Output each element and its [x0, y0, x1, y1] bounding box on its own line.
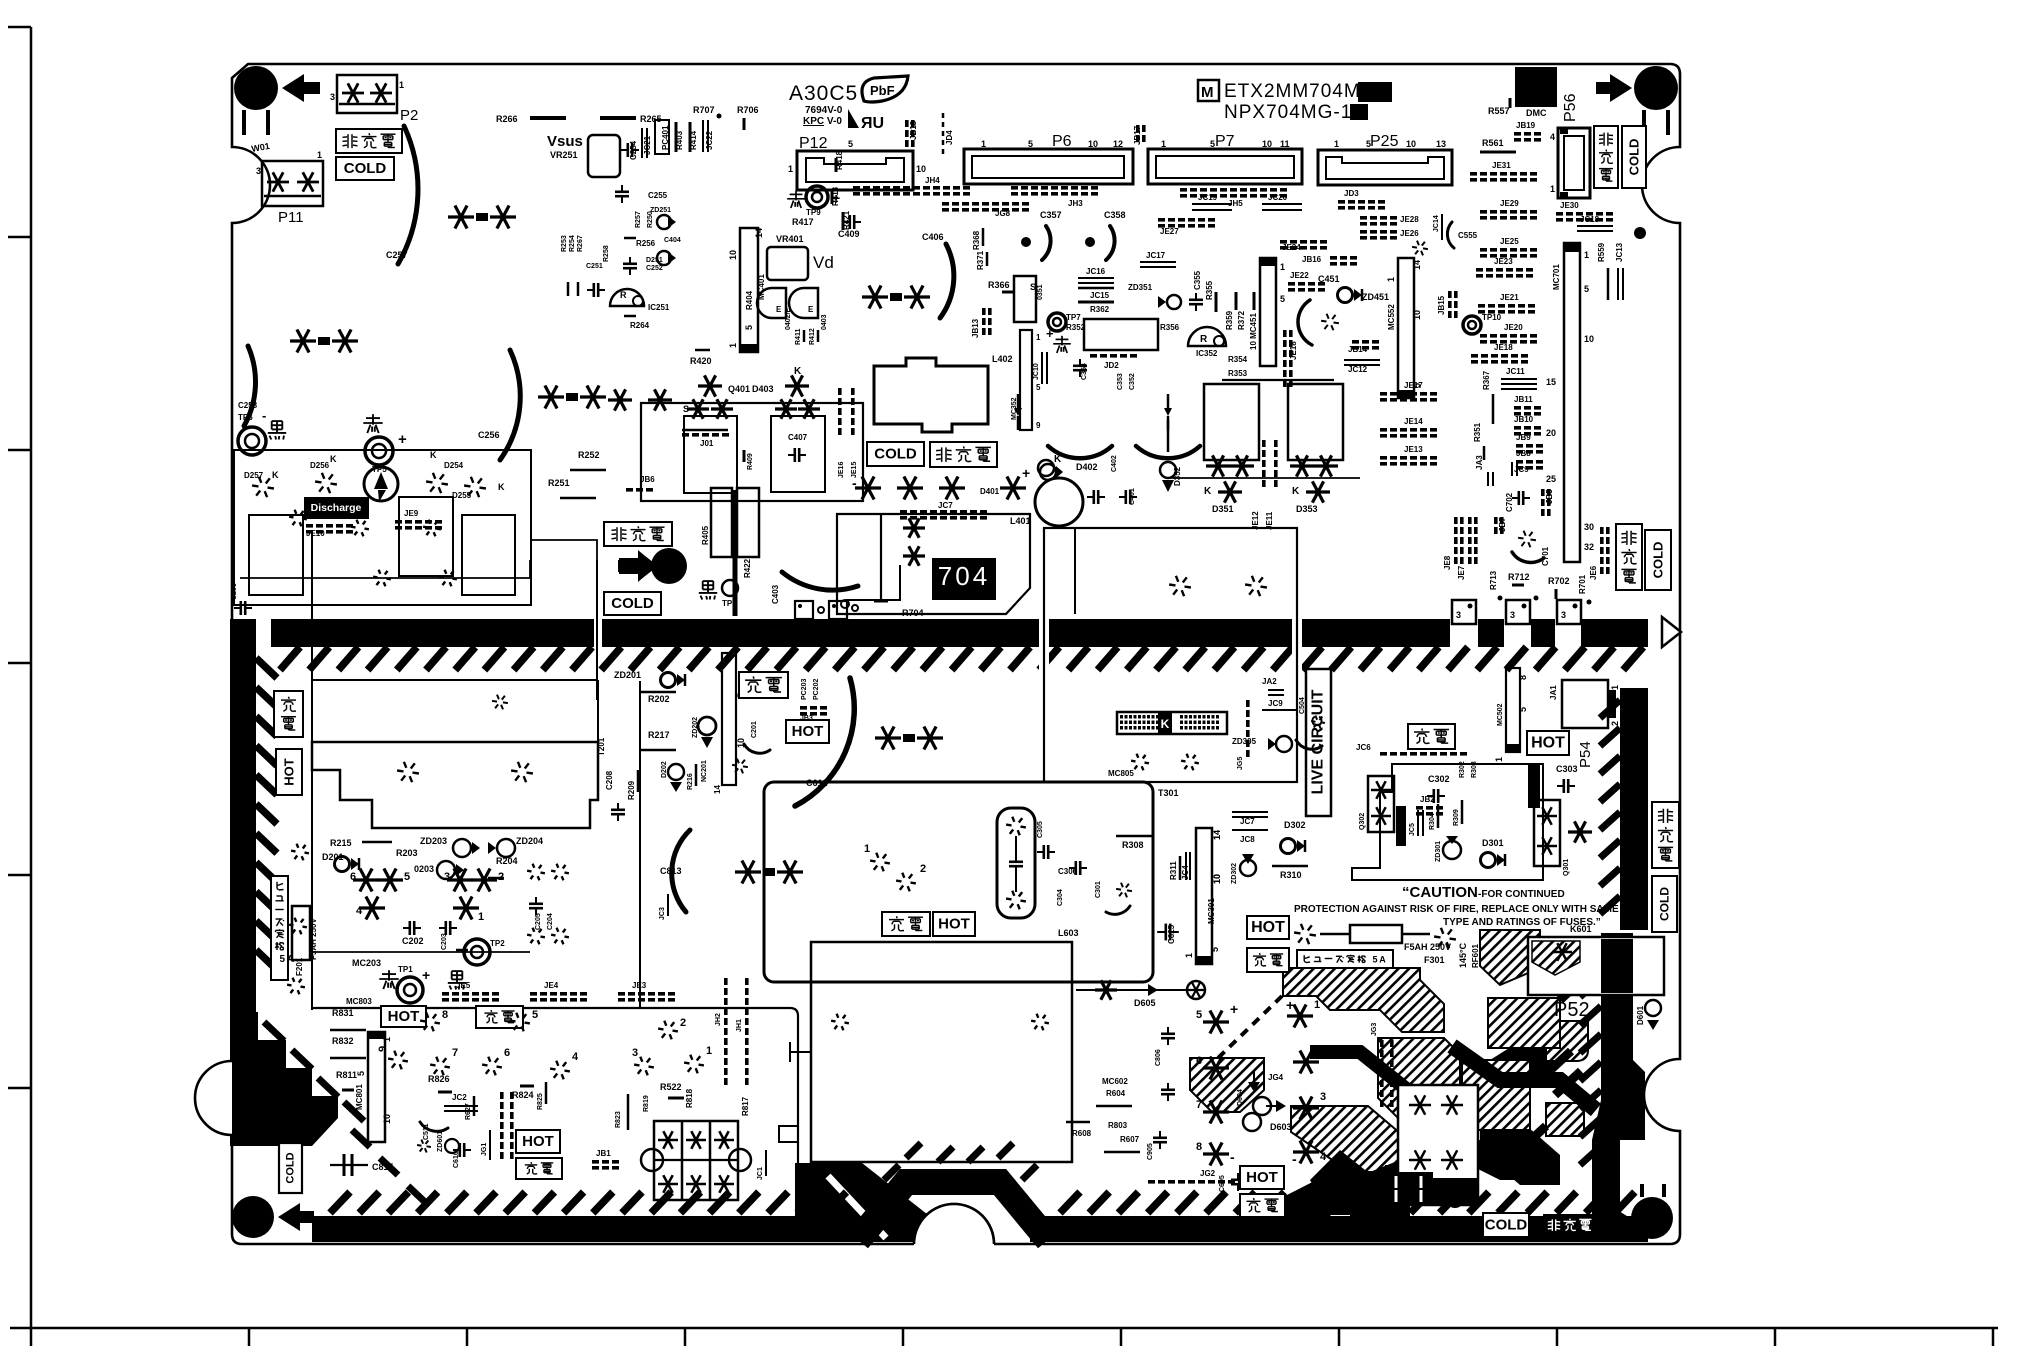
svg-text:C254: C254 — [629, 140, 638, 160]
dashed diagonal trace — [1218, 996, 1282, 1058]
svg-text:6: 6 — [1196, 1055, 1202, 1067]
label 充電 T301 — [882, 912, 930, 936]
svg-text:5: 5 — [1366, 139, 1371, 149]
capacitor C206 — [240, 601, 243, 615]
thick diagonal stubs near column — [1550, 956, 1576, 980]
svg-text:R418: R418 — [835, 150, 844, 170]
svg-text:MC502: MC502 — [1497, 703, 1504, 726]
svg-text:JB19: JB19 — [1516, 121, 1536, 130]
svg-text:1: 1 — [706, 1045, 712, 1057]
jumper JH2 JH1 — [724, 978, 728, 985]
diode row D605 — [1076, 989, 1190, 991]
svg-text:R817: R817 — [741, 1096, 750, 1116]
svg-text:1: 1 — [1184, 953, 1194, 958]
svg-text:JC12: JC12 — [1348, 365, 1368, 374]
big star pair hot2 — [735, 870, 761, 873]
svg-text:704: 704 — [938, 561, 990, 591]
svg-text:2: 2 — [1610, 721, 1620, 726]
svg-text:R831: R831 — [332, 1008, 354, 1018]
svg-text:1: 1 — [1036, 333, 1041, 342]
svg-text:A30C5: A30C5 — [789, 82, 858, 105]
label HOT mid-right — [1247, 916, 1289, 939]
Matsushita M logo — [1198, 80, 1219, 101]
svg-text:D352: D352 — [1173, 466, 1182, 486]
svg-text:R: R — [620, 290, 627, 300]
svg-text:25: 25 — [1546, 474, 1556, 484]
jumper JC22 — [702, 120, 704, 152]
svg-text:VR251: VR251 — [550, 150, 578, 160]
label 非充電 mid — [930, 442, 997, 467]
svg-text:2: 2 — [1320, 1045, 1326, 1057]
arrow top-right — [1596, 74, 1632, 102]
svg-text:C358: C358 — [1104, 210, 1126, 220]
wires from discharge block — [311, 530, 313, 1010]
svg-text:JD4: JD4 — [945, 130, 954, 145]
inductor L401 — [1035, 478, 1083, 526]
svg-text:HOT: HOT — [1251, 919, 1285, 936]
svg-text:0403: 0403 — [821, 314, 828, 330]
inductor L402 — [874, 358, 988, 432]
svg-text:5: 5 — [356, 1071, 366, 1076]
relay K601 outline — [1528, 937, 1664, 995]
hatched copper region E (lower band) — [1291, 1106, 1420, 1172]
svg-text:C257: C257 — [386, 250, 408, 260]
svg-text:C204: C204 — [547, 913, 554, 930]
svg-text:R351: R351 — [1473, 422, 1482, 442]
svg-text:ZD305: ZD305 — [1232, 737, 1257, 746]
svg-text:0203: 0203 — [414, 864, 434, 874]
svg-text:P52: P52 — [1554, 999, 1590, 1021]
arc C358 — [1106, 226, 1115, 260]
svg-text:R254: R254 — [569, 235, 576, 252]
capacitor C451 arc — [1298, 300, 1312, 345]
svg-text:JC16: JC16 — [1086, 267, 1106, 276]
svg-text:R: R — [1200, 334, 1208, 345]
relay K602 outline — [1398, 1085, 1478, 1205]
svg-text:K: K — [794, 366, 802, 377]
svg-text:R818: R818 — [685, 1088, 694, 1108]
label red 赤 mid — [1056, 338, 1069, 340]
svg-text:E: E — [808, 305, 814, 314]
svg-text:TP1: TP1 — [398, 965, 413, 974]
left isolation bar — [230, 619, 256, 1019]
capacitor C354 — [1073, 364, 1087, 367]
svg-text:ZD351: ZD351 — [1128, 283, 1153, 292]
svg-text:-FOR CONTINUED: -FOR CONTINUED — [1478, 889, 1565, 900]
left bar stair to bottom — [230, 1012, 338, 1146]
svg-text:R412: R412 — [809, 328, 816, 345]
svg-text:DMC: DMC — [1526, 108, 1547, 118]
svg-text:JG8: JG8 — [995, 209, 1011, 218]
resistor R405 — [711, 488, 732, 557]
svg-text:7: 7 — [1196, 1099, 1202, 1111]
svg-text:PbF: PbF — [870, 83, 895, 98]
svg-text:F5AH 250V: F5AH 250V — [309, 918, 318, 960]
svg-text:COLD: COLD — [1658, 887, 1672, 921]
svg-text:A: A — [287, 954, 294, 965]
svg-text:14: 14 — [1412, 260, 1422, 270]
svg-text:R712: R712 — [1508, 572, 1530, 582]
bottom band teeth — [330, 1192, 350, 1213]
svg-text:30: 30 — [1584, 522, 1594, 532]
svg-text:3: 3 — [1561, 610, 1566, 620]
label 充電 bottom mid — [1240, 1194, 1285, 1217]
svg-text:2: 2 — [920, 863, 926, 875]
svg-text:JC11: JC11 — [1506, 367, 1525, 376]
svg-text:R420: R420 — [690, 356, 712, 366]
svg-text:TYPE AND RATINGS OF FUSES.”: TYPE AND RATINGS OF FUSES.” — [1443, 917, 1601, 928]
svg-text:R824: R824 — [512, 1090, 534, 1100]
svg-text:10: 10 — [728, 250, 738, 260]
star pair 4 — [862, 295, 888, 298]
wire vertical mid hot — [639, 681, 641, 1008]
svg-text:TP6: TP6 — [238, 413, 253, 422]
svg-text:C208: C208 — [605, 770, 614, 790]
svg-text:JC20: JC20 — [1268, 193, 1288, 202]
svg-text:JE15: JE15 — [851, 462, 858, 478]
module 704 — [932, 558, 996, 600]
svg-text:R204: R204 — [496, 856, 518, 866]
svg-text:J01: J01 — [700, 439, 714, 448]
svg-text:JB8: JB8 — [1516, 449, 1531, 458]
svg-text:A: A — [1379, 955, 1386, 965]
svg-text:PC202: PC202 — [813, 678, 820, 700]
svg-text:MC203: MC203 — [352, 958, 381, 968]
svg-text:R308: R308 — [1122, 840, 1144, 850]
svg-text:C352: C352 — [1129, 373, 1136, 390]
svg-text:JH1: JH1 — [736, 1019, 743, 1032]
label HOT P54 — [1527, 731, 1569, 755]
svg-text:JB3: JB3 — [800, 715, 813, 722]
svg-text:JH4: JH4 — [925, 176, 940, 185]
svg-text:IC251: IC251 — [648, 303, 670, 312]
svg-text:R417: R417 — [792, 217, 814, 227]
svg-text:PC401: PC401 — [661, 125, 670, 150]
svg-text:14: 14 — [713, 785, 722, 794]
svg-text:C255: C255 — [648, 191, 668, 200]
svg-text:K: K — [272, 470, 279, 480]
svg-text:VR401: VR401 — [776, 234, 804, 244]
optocoupler PC201 — [795, 601, 813, 619]
svg-text:JC18: JC18 — [1580, 215, 1600, 224]
right column hatch top — [1620, 688, 1648, 930]
svg-text:R706: R706 — [737, 105, 759, 115]
svg-text:1: 1 — [382, 1037, 392, 1042]
svg-text:T301: T301 — [1158, 788, 1179, 798]
svg-text:3: 3 — [256, 166, 261, 176]
resistor R414 — [689, 122, 692, 152]
capacitor C254 — [626, 143, 629, 157]
label HOT T301 — [933, 912, 975, 936]
diode D251 — [657, 251, 671, 265]
svg-text:JE18: JE18 — [1289, 341, 1298, 360]
svg-text:Q302: Q302 — [1359, 813, 1366, 830]
testpoint TP1 — [397, 977, 423, 1003]
label 充電 mid-right — [1247, 948, 1289, 972]
edge marker triangle — [1662, 617, 1681, 647]
svg-text:JC3: JC3 — [659, 907, 666, 920]
arrow top-left — [282, 74, 320, 102]
svg-text:2: 2 — [680, 1017, 686, 1029]
svg-text:R411: R411 — [795, 329, 802, 345]
svg-text:R561: R561 — [1482, 138, 1504, 148]
jumper JH4 dashes — [853, 186, 860, 190]
arc C812 — [795, 678, 854, 806]
svg-text:R256: R256 — [636, 239, 656, 248]
svg-text:R819: R819 — [643, 1095, 650, 1112]
diode block D351 — [1204, 384, 1259, 460]
svg-text:R217: R217 — [648, 730, 670, 740]
svg-text:R356: R356 — [1160, 323, 1180, 332]
svg-text:14: 14 — [754, 228, 764, 238]
jumper dash pair vertical — [500, 1092, 504, 1099]
hatched copper region A (fuse strip) — [1283, 968, 1444, 1032]
svg-text:R309: R309 — [1453, 809, 1460, 826]
svg-text:32: 32 — [1584, 542, 1594, 552]
svg-text:R367: R367 — [1482, 370, 1491, 390]
block MC803 outline — [312, 1008, 798, 1205]
svg-text:R257: R257 — [635, 211, 642, 228]
label HOT box small — [516, 1130, 560, 1153]
fuse F201 — [292, 906, 310, 960]
svg-text:D603: D603 — [1270, 1122, 1292, 1132]
connector P11 — [262, 161, 323, 206]
svg-text:TP10: TP10 — [1482, 313, 1502, 322]
svg-text:D601: D601 — [1636, 1005, 1645, 1025]
svg-text:R557: R557 — [1488, 106, 1510, 116]
svg-text:9: 9 — [377, 1046, 389, 1052]
svg-text:R832: R832 — [332, 1036, 354, 1046]
svg-text:JG4: JG4 — [1268, 1073, 1284, 1082]
arc D402 — [1048, 446, 1112, 458]
varistor VR401 — [767, 247, 808, 280]
capacitors C401 — [1093, 490, 1096, 504]
arrow mid-left — [618, 552, 658, 580]
connector P2 — [337, 75, 397, 113]
diode D352 — [1160, 462, 1176, 478]
svg-text:JA2: JA2 — [1262, 677, 1277, 686]
svg-text:R311: R311 — [1169, 861, 1178, 880]
svg-text:K: K — [430, 450, 437, 460]
svg-text:JE21: JE21 — [1500, 293, 1519, 302]
label COLD right vertical — [1645, 530, 1671, 590]
jumper JE18 vertical — [1283, 330, 1287, 337]
svg-text:C605: C605 — [1219, 1175, 1226, 1192]
testpoint TP8 dot — [651, 548, 687, 584]
svg-text:NC201: NC201 — [701, 760, 708, 782]
label 非充電 right-lower vertical — [1652, 802, 1679, 868]
svg-text:C355: C355 — [1193, 270, 1202, 290]
resistor R403 — [675, 122, 678, 152]
svg-text:JB16: JB16 — [1302, 255, 1322, 264]
svg-text:R203: R203 — [396, 848, 418, 858]
svg-text:D301: D301 — [1482, 838, 1504, 848]
svg-text:C206: C206 — [231, 583, 238, 600]
svg-text:HOT: HOT — [282, 758, 297, 786]
svg-text:K602: K602 — [1432, 1218, 1456, 1229]
svg-text:13: 13 — [1436, 139, 1446, 149]
wire through band slot — [596, 560, 598, 700]
thick snake trace 1 — [1452, 1046, 1596, 1110]
svg-text:ZD251: ZD251 — [650, 207, 671, 214]
isolation band (HOT/COLD boundary) — [271, 619, 594, 647]
jumper JD2 dashes — [1090, 354, 1097, 358]
svg-text:9: 9 — [1036, 421, 1041, 430]
rect around 704 — [837, 514, 1030, 614]
capacitor C355 — [1189, 298, 1203, 301]
label red 赤 TP9 — [790, 193, 803, 195]
jumper JE9 — [395, 520, 402, 524]
svg-text:R405: R405 — [701, 525, 710, 545]
svg-text:P11: P11 — [278, 209, 304, 226]
svg-text:1: 1 — [1584, 250, 1589, 260]
svg-text:KPC V-0: KPC V-0 — [803, 116, 842, 127]
hatched copper region B (K601 area) — [1480, 930, 1540, 985]
label COLD top-left — [336, 157, 394, 180]
svg-text:COLD: COLD — [1627, 139, 1642, 176]
svg-text:IC352: IC352 — [1196, 349, 1218, 358]
svg-text:D302: D302 — [1284, 820, 1306, 830]
svg-text:10: 10 — [1406, 139, 1416, 149]
drawing frame ruler left — [30, 27, 33, 1329]
jumper JB18 — [905, 120, 909, 127]
svg-text:JC14: JC14 — [1433, 215, 1440, 232]
svg-text:C402: C402 — [1111, 455, 1118, 472]
transformer T201 block — [312, 742, 598, 828]
svg-text:JC10: JC10 — [1033, 363, 1040, 380]
svg-text:R359: R359 — [1225, 310, 1234, 330]
svg-text:R352: R352 — [1066, 323, 1086, 332]
svg-text:R267: R267 — [577, 235, 584, 252]
svg-text:NPX704MG-1: NPX704MG-1 — [1224, 102, 1352, 123]
star sparse group — [541, 871, 545, 874]
arc C257 — [398, 126, 418, 264]
svg-text:Q401: Q401 — [728, 384, 750, 394]
black claw traces right — [1480, 1120, 1560, 1185]
svg-text:+: + — [1046, 326, 1054, 341]
svg-text:JC7: JC7 — [1240, 817, 1255, 826]
svg-text:R366: R366 — [988, 280, 1010, 290]
svg-text:1: 1 — [1334, 139, 1339, 149]
svg-text:R707: R707 — [693, 105, 715, 115]
svg-text:M: M — [1201, 84, 1214, 101]
label COLD P56 vertical — [1622, 126, 1646, 188]
svg-text:R608: R608 — [1072, 1129, 1092, 1138]
connector MC552 — [1398, 258, 1414, 398]
svg-text:ZD203: ZD203 — [420, 836, 447, 846]
svg-text:JC15: JC15 — [1090, 291, 1110, 300]
svg-text:COLD: COLD — [1485, 1217, 1528, 1234]
star pad — [1531, 539, 1536, 542]
svg-text:C304: C304 — [1057, 889, 1064, 906]
svg-text:C404: C404 — [664, 237, 681, 244]
jumper JE8 — [1454, 517, 1458, 524]
svg-text:D353: D353 — [1296, 504, 1318, 514]
svg-text:JB5: JB5 — [1545, 489, 1554, 504]
bridge block outline — [234, 450, 531, 605]
svg-text:JD2: JD2 — [1104, 361, 1119, 370]
svg-text:5: 5 — [1280, 294, 1285, 304]
svg-text:5: 5 — [1196, 1009, 1202, 1021]
svg-text:5: 5 — [744, 325, 754, 330]
svg-text:JE31: JE31 — [1492, 161, 1511, 170]
testpoint TP9 — [806, 186, 828, 208]
svg-text:1: 1 — [1550, 184, 1555, 194]
board outline — [232, 64, 1680, 1244]
svg-text:MC602: MC602 — [1102, 1077, 1128, 1086]
label 充電 live — [1408, 724, 1455, 749]
svg-text:1: 1 — [1280, 262, 1285, 272]
thick snake trace 2 — [1310, 1052, 1470, 1100]
svg-text:5: 5 — [1210, 947, 1220, 952]
connector MC203 wire — [310, 951, 530, 953]
hatched copper region F (P52) — [1546, 1021, 1588, 1061]
thick trace right column — [1592, 933, 1645, 1216]
svg-text:C625: C625 — [1167, 924, 1176, 944]
capacitor C701 arc — [1512, 552, 1544, 562]
diode D257 — [268, 486, 274, 489]
svg-text:JB9: JB9 — [1516, 433, 1531, 442]
svg-text:Q301: Q301 — [1563, 859, 1570, 876]
small dots — [1534, 596, 1539, 601]
svg-text:10: 10 — [382, 1114, 392, 1124]
texture stars cold area — [608, 398, 632, 401]
svg-text:5: 5 — [532, 1009, 538, 1021]
svg-text:JE6: JE6 — [1589, 565, 1598, 580]
svg-text:C702: C702 — [1505, 492, 1514, 512]
capacitor C203 — [444, 921, 447, 935]
star pad small — [743, 765, 748, 768]
svg-text:Vsus: Vsus — [547, 133, 583, 150]
bottom edge notch — [914, 1204, 994, 1258]
svg-text:TP7: TP7 — [1066, 313, 1081, 322]
svg-text:R372: R372 — [1237, 310, 1246, 330]
svg-text:JB2: JB2 — [1420, 795, 1435, 804]
svg-text:R627: R627 — [465, 1103, 472, 1120]
svg-text:R409: R409 — [747, 453, 754, 470]
hatched copper region D (JG4) — [1190, 1058, 1264, 1112]
IC352 dome — [1188, 327, 1226, 346]
capacitor C409 — [848, 215, 851, 229]
svg-text:F301: F301 — [1424, 955, 1445, 965]
svg-text:JC21: JC21 — [643, 135, 652, 155]
svg-text:“CAUTION: “CAUTION — [1402, 884, 1478, 901]
band teeth — [280, 647, 300, 670]
svg-text:C555: C555 — [1458, 231, 1478, 240]
svg-text:C256: C256 — [478, 430, 500, 440]
svg-text:HOT: HOT — [1531, 735, 1565, 752]
label Discharge — [304, 497, 369, 519]
svg-text:1: 1 — [788, 164, 793, 174]
svg-text:R607: R607 — [1120, 1135, 1140, 1144]
label 非充電 P56 vertical — [1594, 126, 1618, 188]
svg-text:JE16: JE16 — [838, 462, 845, 478]
svg-text:MC801: MC801 — [355, 1084, 364, 1110]
hatched copper region H — [1462, 1060, 1530, 1130]
testpoint TP2 — [464, 939, 490, 965]
svg-text:C303: C303 — [1556, 764, 1578, 774]
svg-text:JA3: JA3 — [1475, 455, 1484, 470]
label 非充電 bottom-right — [1543, 1214, 1593, 1237]
jumper JE7 — [1468, 517, 1472, 524]
svg-text:JE8: JE8 — [1443, 555, 1452, 570]
screw hole top-right — [1634, 66, 1678, 110]
star pair 2 — [290, 339, 316, 342]
svg-text:F201: F201 — [295, 957, 304, 976]
transistor Q351 — [1014, 276, 1036, 322]
svg-text:JC7: JC7 — [938, 501, 953, 510]
svg-text:HOT: HOT — [938, 916, 970, 933]
